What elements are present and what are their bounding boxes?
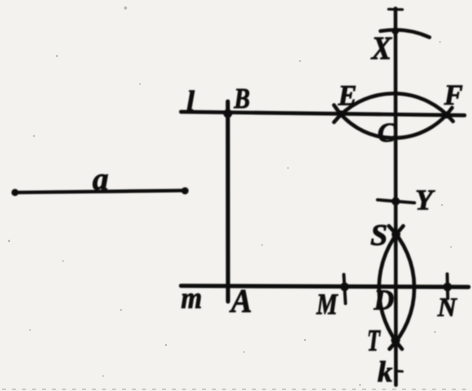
svg-text:l: l [186, 86, 195, 118]
small tick on line k below T [396, 370, 403, 373]
svg-text:M: M [316, 288, 339, 321]
svg-text:D: D [373, 286, 394, 317]
top tick of line k [389, 8, 403, 11]
endpoint dot of a (right) [181, 187, 188, 194]
segment a [15, 191, 185, 193]
scan artifact: bottom dotted line [2, 388, 470, 390]
svg-text:X: X [371, 31, 393, 67]
tick at Y [378, 200, 415, 203]
svg-text:N: N [437, 293, 458, 322]
svg-text:a: a [93, 161, 109, 197]
point T dot [391, 335, 400, 344]
point F dot [443, 111, 450, 118]
point S dot [392, 230, 401, 239]
point M dot [340, 282, 349, 291]
svg-text:C: C [377, 118, 396, 148]
point E dot [337, 110, 344, 117]
svg-text:A: A [229, 283, 252, 320]
point X dot [392, 27, 399, 34]
tick at M [344, 275, 346, 304]
upper lens bottom arc (through E and F) [334, 105, 452, 138]
svg-text:m: m [181, 280, 202, 315]
segment AB [226, 102, 230, 302]
tick at N [446, 274, 450, 299]
point B dot [223, 109, 232, 118]
svg-text:T: T [367, 323, 381, 358]
svg-text:F: F [443, 81, 463, 112]
svg-text:k: k [378, 356, 393, 389]
line m [181, 286, 469, 287]
endpoint dot of a (left) [11, 189, 18, 196]
lower lens right arc (through S and T) [389, 226, 414, 349]
svg-text:S: S [370, 217, 387, 252]
point N dot [443, 283, 452, 292]
svg-text:B: B [233, 84, 250, 115]
arc through X (centered at C) [381, 30, 430, 37]
svg-text:E: E [337, 81, 357, 112]
point Y dot [392, 197, 400, 205]
upper lens top arc (through E and F) [334, 94, 453, 123]
line k [394, 9, 398, 386]
point D dot [393, 284, 398, 289]
svg-text:Y: Y [415, 185, 435, 217]
lower lens left arc (through S and T) [379, 226, 403, 349]
line l [181, 112, 465, 116]
